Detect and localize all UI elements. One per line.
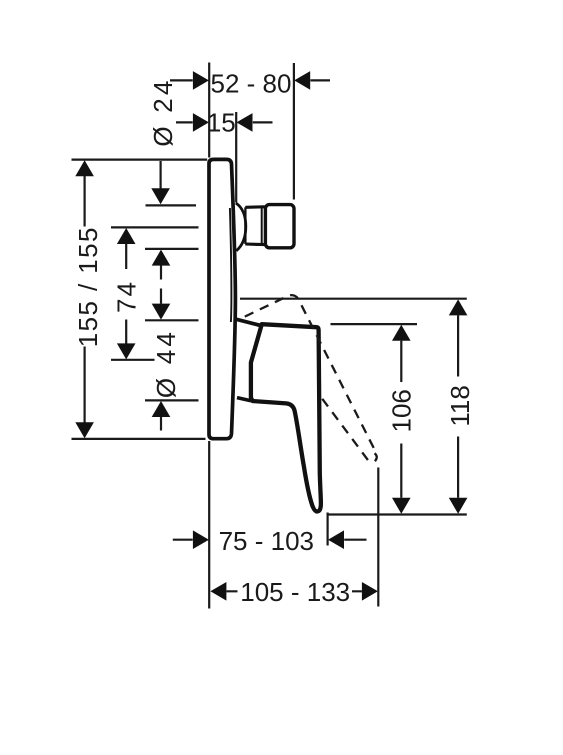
knob neck bottom [245, 242, 264, 246]
74 bottom reference line [111, 359, 155, 361]
svg-text:155 / 155: 155 / 155 [73, 226, 103, 347]
extension line right x294 [293, 63, 295, 200]
arrow 44 bottom [152, 304, 171, 320]
diam44 reference line [145, 399, 199, 401]
svg-text:74: 74 [111, 280, 141, 313]
top reference line y159.6 [72, 159, 208, 161]
arrow 106 top [392, 325, 411, 341]
svg-text:Ø 44: Ø 44 [151, 329, 181, 398]
arrow 74 top [117, 228, 136, 244]
svg-text:106: 106 [386, 389, 416, 432]
faceplate inner edge line [230, 208, 232, 322]
arrow diam44 up [152, 401, 171, 417]
arrow 105-133 right [362, 582, 378, 601]
arrow 155 top [75, 160, 94, 176]
dim 52-80 line [170, 79, 330, 81]
arrow diam24 down [151, 188, 170, 204]
extension line left x209 top [208, 63, 210, 158]
knob neck left edge [244, 207, 246, 244]
dim diam24 shaft [160, 161, 162, 189]
arrow 118 bottom [449, 498, 468, 514]
dim 155/155 shafts [83, 176, 85, 423]
knob head [265, 205, 294, 248]
arrows [75, 71, 467, 601]
74 top reference line [111, 226, 199, 228]
arrow 15 left [193, 113, 209, 132]
arrow 44 top [152, 250, 171, 266]
bottom extension line mid (solid lever tip) [327, 513, 329, 546]
arrow 155 bottom [75, 422, 94, 438]
svg-text:75 - 103: 75 - 103 [219, 526, 314, 556]
svg-text:105 - 133: 105 - 133 [240, 577, 350, 607]
44 bottom reference line [145, 319, 199, 321]
arrow 105-133 left [210, 582, 226, 601]
svg-text:52 - 80: 52 - 80 [211, 68, 292, 98]
bottom extension line right (dashed lever tip) [377, 468, 379, 607]
svg-text:15: 15 [207, 108, 236, 138]
dim 106 shafts [400, 341, 402, 498]
dim 15 line [176, 121, 273, 123]
svg-text:118: 118 [445, 385, 475, 426]
svg-text:Ø 24: Ø 24 [148, 77, 178, 146]
lever handle raised lower edge (dashed) [322, 398, 368, 460]
lever handle raised (dashed) [245, 295, 375, 450]
arrow 75-103 right [328, 530, 344, 549]
right reference line y514.5 [328, 513, 467, 515]
arrow 75-103 left [193, 530, 209, 549]
knob dome [236, 203, 246, 251]
bottom extension line left [208, 441, 210, 609]
arrow 15 right [237, 113, 253, 132]
diam44 arrow shaft [160, 417, 162, 431]
arrow 118 top [449, 299, 468, 315]
arrow 52-80 right [294, 71, 310, 90]
lever wedge bottom [237, 398, 251, 401]
knob neck top [245, 205, 264, 209]
arrow 106 bottom [392, 498, 411, 514]
diam24 lower reference line [146, 204, 197, 206]
lever handle (solid, down position) [251, 324, 321, 511]
arrow 74 bottom [117, 343, 136, 359]
dim 44 shafts (dashed middle) [160, 265, 162, 303]
dim 75-103 line [173, 539, 367, 541]
right reference line y324.1 [331, 323, 418, 325]
extension line mid x236 [235, 112, 237, 203]
arrow 52-80 left [193, 71, 209, 90]
bottom reference line y438.9 [72, 438, 206, 440]
lever handle raised tip hook [375, 453, 377, 461]
dim 105-133 line [227, 590, 362, 592]
dim 74 shafts [125, 244, 127, 344]
dim 118 shafts [457, 315, 459, 498]
lever wedge top [236, 319, 260, 325]
faceplate outline [209, 159, 235, 438]
knob neck divider [261, 208, 263, 243]
right reference line y298.7 [240, 298, 467, 300]
44 top reference line [145, 248, 199, 250]
